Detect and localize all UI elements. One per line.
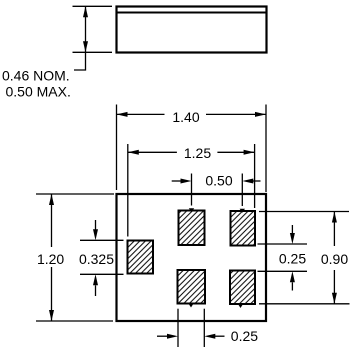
dimension 0.50 — [172, 173, 261, 213]
dimension 0.325 — [79, 220, 124, 296]
svg-text:1.40: 1.40 — [172, 109, 199, 125]
height dimension 0.46/0.50 — [2, 6, 112, 99]
svg-text:0.325: 0.325 — [79, 251, 114, 267]
svg-text:0.25: 0.25 — [279, 251, 306, 267]
svg-text:0.90: 0.90 — [321, 251, 348, 267]
svg-text:1.20: 1.20 — [37, 251, 64, 267]
dimension 1.20 — [36, 194, 114, 321]
svg-text:0.46 NOM.: 0.46 NOM. — [2, 68, 70, 84]
pad bottom-right notch — [238, 304, 243, 308]
dimension 0.25 bottom — [157, 309, 258, 347]
pad bottom-right — [230, 271, 255, 305]
svg-text:1.25: 1.25 — [184, 145, 211, 161]
pad top-center — [179, 211, 205, 246]
pad bottom-center notch — [188, 303, 193, 307]
pad left-middle — [128, 241, 154, 274]
side view body — [117, 7, 267, 53]
pad bottom-center — [178, 270, 206, 304]
dimension 1.40 — [117, 105, 267, 193]
svg-text:0.50 MAX.: 0.50 MAX. — [6, 84, 71, 100]
dimension 1.25 — [128, 144, 255, 237]
pad top-right — [231, 211, 256, 246]
svg-text:0.25: 0.25 — [231, 328, 258, 344]
plan view outline — [117, 194, 267, 321]
dimension 0.25 right — [258, 225, 308, 291]
dimension 0.90 — [259, 212, 350, 304]
svg-text:0.50: 0.50 — [205, 173, 232, 189]
